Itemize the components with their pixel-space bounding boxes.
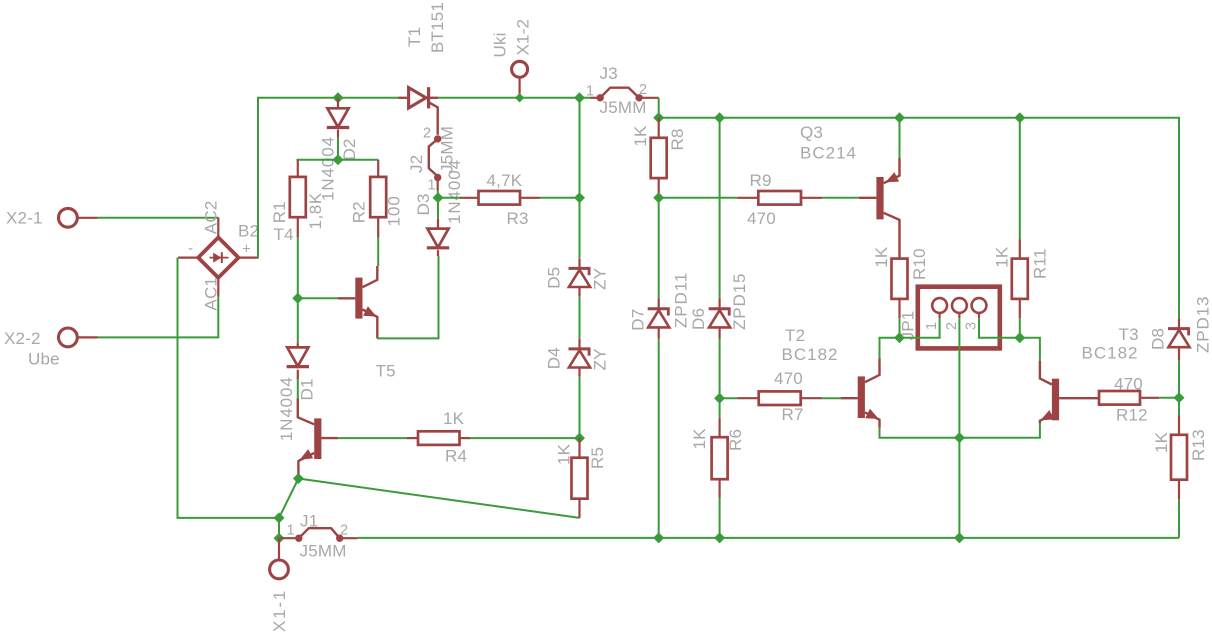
svg-text:D8: D8	[1149, 328, 1168, 350]
svg-text:JP1: JP1	[899, 311, 918, 341]
label JP1 pin1	[924, 322, 940, 330]
label J3 pin2	[639, 82, 647, 98]
wire top to D5	[579, 98, 581, 259]
svg-text:ZPD11: ZPD11	[672, 272, 691, 328]
svg-text:T4: T4	[274, 225, 294, 244]
svg-text:2: 2	[639, 82, 647, 98]
resistor R6 bottom pin	[718, 479, 720, 497]
svg-text:3: 3	[963, 322, 979, 330]
svg-text:AC1: AC1	[202, 277, 221, 311]
junction X1-2	[515, 93, 524, 102]
svg-text:1N4004: 1N4004	[319, 136, 338, 201]
svg-text:R3: R3	[507, 209, 529, 228]
label X2-1	[6, 209, 43, 228]
resistor R13 top pin	[1178, 416, 1180, 435]
svg-text:ZPD15: ZPD15	[730, 273, 749, 330]
svg-text:D1: D1	[298, 378, 317, 400]
label B2	[238, 222, 259, 241]
svg-text:R12: R12	[1116, 406, 1148, 425]
label D5	[545, 267, 564, 289]
wire node to R13	[1178, 398, 1180, 416]
resistor R4	[418, 431, 460, 445]
wire node to D3	[437, 198, 439, 219]
label D3 value 1N4004	[445, 159, 464, 224]
junction D3 node	[432, 192, 443, 203]
label T2	[785, 326, 805, 345]
wire D1 to T4 collector	[297, 379, 299, 398]
label AC2	[202, 201, 221, 235]
label J2 pin1	[428, 178, 436, 194]
wire D5 to D4	[579, 297, 581, 339]
svg-text:2: 2	[944, 322, 960, 330]
label T5	[376, 362, 396, 381]
junction T4 emitter	[293, 473, 304, 484]
svg-text:J5MM: J5MM	[600, 98, 647, 117]
label D5 value ZY	[591, 268, 610, 290]
label R13 value 1K	[1152, 431, 1171, 453]
svg-text:R11: R11	[1031, 248, 1050, 279]
bridge rectifier B2	[178, 217, 259, 296]
junction rail R8	[653, 112, 664, 123]
resistor R10	[892, 259, 908, 299]
junction T5 base node	[292, 293, 303, 304]
svg-text:R2: R2	[350, 201, 369, 223]
label B2 plus	[242, 241, 251, 258]
svg-text:AC2: AC2	[202, 201, 221, 235]
pad X1-2	[512, 61, 528, 77]
zener diode D5	[569, 259, 591, 297]
wire top rail	[659, 118, 1179, 319]
label X1-1	[270, 589, 289, 632]
wire D6 to R7 node	[719, 339, 721, 399]
wire emitter diag right	[298, 479, 579, 518]
svg-text:R4: R4	[445, 447, 467, 466]
wire X2-2 to AC1	[98, 297, 218, 338]
label Ube	[28, 350, 60, 369]
wire R12 to rail	[1159, 397, 1179, 399]
resistor R4 left pin	[407, 437, 418, 439]
label R11 value 1K	[993, 246, 1012, 268]
resistor R11	[1012, 259, 1028, 299]
wire R3 to D5 line	[540, 197, 579, 199]
label T3	[1119, 325, 1139, 344]
label J3	[600, 64, 618, 83]
label J2	[407, 155, 426, 173]
label T1	[405, 27, 424, 47]
svg-text:470: 470	[774, 369, 803, 388]
wire T1 cathode to J3	[438, 97, 590, 99]
resistor R9 right pin	[801, 197, 822, 199]
label D6 value ZPD15	[730, 273, 749, 330]
label J1 value J5MM	[300, 542, 347, 561]
junction R6 R7	[714, 393, 725, 404]
wire J2 to node	[437, 191, 439, 198]
svg-text:J3: J3	[600, 64, 618, 83]
label JP1 pin3	[963, 322, 979, 330]
label D8 value ZPD13	[1194, 296, 1212, 353]
wire J3 corner down	[658, 98, 660, 118]
svg-text:1N4004: 1N4004	[277, 376, 296, 441]
label R9	[750, 171, 772, 190]
label AC1	[202, 277, 221, 311]
resistor R3 left pin	[460, 197, 479, 199]
junction JP1 bus left	[894, 332, 905, 343]
svg-text:BC214: BC214	[800, 144, 857, 163]
label D7	[629, 309, 648, 331]
label J1	[300, 512, 318, 531]
svg-text:BT151: BT151	[428, 2, 447, 53]
label R4	[445, 447, 467, 466]
resistor R8 top pin	[658, 118, 660, 138]
svg-text:1K: 1K	[690, 428, 709, 450]
wire D7 to bottom rail	[658, 339, 660, 538]
resistor R11 bottom pin	[1019, 299, 1021, 319]
jumper J2	[429, 135, 442, 190]
label R8	[668, 128, 687, 150]
resistor R9 left pin	[737, 197, 758, 199]
label R2	[350, 201, 369, 223]
wire R8 bottom to R9	[659, 197, 738, 199]
junction R8 bottom	[653, 192, 664, 203]
label R1	[270, 201, 289, 223]
svg-text:D4: D4	[545, 347, 564, 369]
svg-text:1K: 1K	[993, 246, 1012, 268]
svg-text:2: 2	[423, 126, 431, 142]
zener diode D8	[1168, 319, 1190, 361]
wire R7 to T2 base	[822, 397, 841, 399]
resistor R7 right pin	[801, 397, 822, 399]
junction D2 top	[332, 92, 343, 103]
wire R6 to bottom rail	[719, 498, 721, 538]
wire rail to D6	[719, 118, 721, 299]
svg-text:1K: 1K	[631, 125, 650, 147]
wire JP1 pin3 down	[979, 318, 1040, 361]
resistor R13	[1171, 435, 1187, 480]
wire R4 to R5	[470, 437, 580, 439]
label D1	[298, 378, 317, 400]
label Q3 value BC214	[800, 144, 857, 163]
zener diode D4	[569, 339, 591, 377]
wire left rail to X1-1 node	[278, 518, 280, 538]
junction X1-1 node	[273, 533, 284, 544]
pin X2-1	[77, 217, 98, 219]
resistor R1 bottom pin	[297, 217, 299, 237]
zener diode D6	[709, 298, 731, 338]
junction bottom JP1-2	[954, 532, 965, 543]
svg-text:1K: 1K	[872, 246, 891, 268]
label R4 value 1K	[443, 409, 465, 428]
resistor R5 top pin	[578, 438, 580, 458]
wire R13 to bottom rail	[1178, 499, 1180, 538]
svg-text:+: +	[242, 241, 251, 258]
wire R1 bottom to node	[297, 238, 299, 344]
junction R1R2 bus	[332, 154, 343, 165]
transistor T4	[298, 399, 338, 479]
svg-text:R10: R10	[910, 248, 929, 280]
svg-text:1: 1	[586, 84, 594, 100]
label D6	[689, 308, 708, 330]
pad X2-2	[59, 328, 78, 347]
label Uki	[491, 32, 510, 57]
svg-text:D6: D6	[689, 308, 708, 330]
diode D2	[327, 98, 349, 138]
wire node to R7	[720, 397, 738, 399]
wire D4 to R4 row	[579, 377, 581, 438]
resistor R8 bottom pin	[658, 178, 660, 198]
label J1 pin1	[287, 523, 295, 539]
resistor R3 right pin	[520, 197, 540, 199]
label Q3	[800, 123, 823, 142]
label R10 value 1K	[872, 246, 891, 268]
wire R2 bottom	[377, 238, 379, 266]
resistor R12	[1099, 391, 1140, 405]
svg-text:4,7K: 4,7K	[487, 171, 523, 190]
label R1 value 1,8K	[306, 192, 325, 229]
wire D2 to bus	[337, 138, 339, 160]
junction rail D6	[714, 112, 725, 123]
label R6 value 1K	[690, 428, 709, 450]
svg-text:R6: R6	[726, 429, 745, 451]
wire D3 to T5 emitter	[377, 256, 438, 338]
label D2	[340, 138, 359, 160]
svg-text:ZY: ZY	[591, 348, 610, 370]
label JP1 pin2	[944, 322, 960, 330]
svg-text:ZPD13: ZPD13	[1194, 296, 1212, 353]
label R2 value 100	[385, 195, 404, 226]
resistor R1 top pin	[297, 160, 299, 177]
label X2-2	[4, 329, 41, 348]
svg-text:T3: T3	[1119, 325, 1139, 344]
svg-text:BC182: BC182	[1082, 344, 1139, 363]
resistor R6 top pin	[718, 418, 720, 437]
svg-text:T5: T5	[376, 362, 396, 381]
svg-text:1: 1	[287, 523, 295, 539]
label JP1	[899, 311, 918, 341]
svg-text:-: -	[188, 240, 193, 257]
svg-text:X2-1: X2-1	[6, 209, 43, 228]
svg-text:X2-2: X2-2	[4, 329, 41, 348]
junction rail R11	[1014, 112, 1025, 123]
label R13	[1189, 429, 1208, 461]
resistor R9	[758, 191, 801, 205]
svg-text:X1-1: X1-1	[270, 589, 289, 632]
label R9 value 470	[747, 209, 776, 228]
label R6	[726, 429, 745, 451]
wire emitter bus	[880, 423, 1040, 437]
junction J3 left	[574, 92, 585, 103]
pin X1-1	[278, 538, 280, 560]
resistor R3	[479, 191, 521, 205]
wire R11 to bus	[1019, 318, 1021, 338]
svg-text:470: 470	[747, 209, 776, 228]
svg-text:1K: 1K	[555, 443, 574, 465]
transistor T5	[338, 266, 377, 338]
svg-text:J2: J2	[407, 155, 426, 173]
label D7 value ZPD11	[672, 272, 691, 328]
resistor R12 right pin	[1140, 397, 1159, 399]
label D2 value 1N4004	[319, 136, 338, 201]
wire T4 base to R4	[338, 437, 407, 439]
svg-text:R7: R7	[782, 405, 804, 424]
thyristor T1	[398, 87, 438, 135]
resistor R4 right pin	[460, 437, 471, 439]
wire rail to R11	[1019, 118, 1021, 240]
label D8	[1149, 328, 1168, 350]
wire D8 to node	[1178, 360, 1180, 397]
wire R9 to Q3 base	[822, 197, 859, 199]
transistor T2	[841, 358, 880, 427]
svg-text:1K: 1K	[443, 409, 465, 428]
svg-text:R8: R8	[668, 128, 687, 150]
wire B2+ up	[258, 98, 398, 258]
diode D1	[287, 343, 309, 379]
label R7 value 470	[774, 369, 803, 388]
label J3 pin1	[586, 84, 594, 100]
label R7	[782, 405, 804, 424]
wire JP1 pin1 down	[880, 318, 940, 358]
label J3 value J5MM	[600, 98, 647, 117]
svg-text:2: 2	[340, 523, 348, 539]
wire R8 node to D7	[658, 198, 660, 299]
junction R3 right	[574, 192, 585, 203]
label J2 pin2	[423, 126, 431, 142]
label R12 value 470	[1114, 375, 1143, 394]
svg-text:J1: J1	[300, 512, 318, 531]
resistor R2	[370, 177, 386, 217]
resistor R2 bottom pin	[377, 217, 379, 237]
label R8 value 1K	[631, 125, 650, 147]
jumper J3	[590, 88, 659, 102]
svg-text:1K: 1K	[1152, 431, 1171, 453]
pin X2-2	[77, 336, 98, 338]
resistor R5	[572, 458, 588, 499]
wire R1-R2 bus	[297, 159, 379, 161]
svg-text:R9: R9	[750, 171, 772, 190]
svg-text:1: 1	[428, 178, 436, 194]
svg-text:100: 100	[385, 195, 404, 226]
wire node to R6	[719, 398, 721, 418]
svg-text:D7: D7	[629, 309, 648, 331]
svg-text:B2: B2	[238, 222, 259, 241]
label D1 value 1N4004	[277, 376, 296, 441]
label R12	[1116, 406, 1148, 425]
label T2 value BC182	[782, 345, 839, 364]
label R11	[1031, 248, 1050, 279]
label T1 value BT151	[428, 2, 447, 53]
wire bottom rail	[358, 537, 1179, 539]
label B2 minus	[188, 240, 193, 257]
label D3	[414, 193, 433, 215]
wire JP1 pin2 line	[958, 318, 960, 538]
resistor R13 bottom pin	[1178, 480, 1180, 500]
diode D3	[427, 219, 449, 256]
junction bottom D7	[653, 532, 664, 543]
resistor R8	[651, 138, 667, 178]
svg-text:Uki: Uki	[491, 32, 510, 57]
wire R10 to JP1 bus	[899, 318, 901, 338]
label D4	[545, 347, 564, 369]
svg-text:J5MM: J5MM	[300, 542, 347, 561]
junction emitter bus	[954, 432, 965, 443]
label R5	[588, 447, 607, 469]
svg-text:R5: R5	[588, 447, 607, 469]
transistor Q3	[859, 158, 900, 259]
resistor R6	[712, 437, 728, 479]
pad X2-1	[59, 208, 78, 227]
svg-text:1: 1	[924, 322, 940, 330]
label T3 value BC182	[1082, 344, 1139, 363]
svg-text:T2: T2	[785, 326, 805, 345]
pin X1-2	[518, 78, 520, 98]
svg-text:470: 470	[1114, 375, 1143, 394]
resistor R10 bottom pin	[898, 299, 900, 319]
connector JP1	[918, 287, 1000, 349]
zener diode D7	[648, 298, 670, 338]
junction bottom R6	[714, 532, 725, 543]
label D4 value ZY	[591, 348, 610, 370]
label J1 pin2	[340, 523, 348, 539]
label X1-2	[514, 19, 533, 56]
wire emitter diag left	[279, 479, 298, 518]
wire node to R3	[438, 197, 460, 199]
svg-text:Q3: Q3	[800, 123, 823, 142]
label R10	[910, 248, 929, 280]
svg-text:R1: R1	[270, 201, 289, 223]
svg-text:R13: R13	[1189, 429, 1208, 461]
jumper J1	[280, 528, 358, 542]
svg-text:Ube: Ube	[28, 350, 60, 369]
label R3	[507, 209, 529, 228]
svg-text:T1: T1	[405, 27, 424, 47]
label J2 value J5MM	[438, 126, 457, 173]
resistor R7	[759, 391, 801, 405]
resistor R5 bottom pin	[578, 499, 580, 518]
label R5 value 1K	[555, 443, 574, 465]
wire rail to Q3 emitter	[899, 118, 901, 159]
svg-text:D3: D3	[414, 193, 433, 215]
svg-text:BC182: BC182	[782, 345, 839, 364]
resistor R2 top pin	[377, 160, 379, 177]
svg-text:D5: D5	[545, 267, 564, 289]
junction rail Q3	[894, 112, 905, 123]
label T4	[274, 225, 294, 244]
junction R5 top	[574, 433, 585, 444]
svg-text:X1-2: X1-2	[514, 19, 533, 56]
wire B2- down-left rail	[178, 258, 280, 518]
junction R11 bottom	[1014, 332, 1025, 343]
resistor R11 top pin	[1019, 239, 1021, 258]
junction D8 bottom	[1173, 392, 1184, 403]
label R3 value 4,7K	[487, 171, 523, 190]
pad X1-1	[270, 560, 289, 579]
resistor R7 left pin	[737, 397, 758, 399]
wire T5 base	[298, 297, 338, 299]
svg-text:1N4004: 1N4004	[445, 159, 464, 224]
svg-text:ZY: ZY	[591, 268, 610, 290]
transistor T3	[1040, 361, 1099, 424]
wire X2-1 to AC2	[98, 217, 218, 219]
svg-text:1,8K: 1,8K	[306, 192, 325, 229]
junction left corner	[273, 512, 284, 523]
svg-text:D2: D2	[340, 138, 359, 160]
resistor R1	[290, 177, 306, 217]
